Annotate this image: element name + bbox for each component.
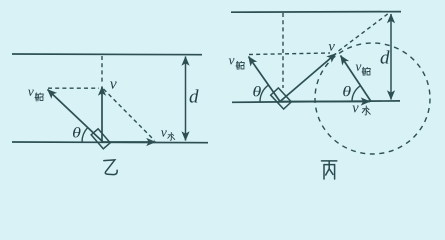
vector v (resultant, vertical) [101,87,103,143]
label v-boat right [356,65,362,71]
label 丙 [322,161,337,179]
label v-boat left [229,58,235,64]
dashed vertical from far bank to boat [282,13,284,88]
vector v resultant [280,54,336,102]
bottom bank line [12,141,208,144]
boat symbol [91,129,110,149]
angle theta arc left [260,85,269,101]
vector v-boat [48,90,104,143]
d dimension arrow [390,14,392,100]
label theta right [343,86,351,96]
label v-boat [28,90,34,96]
dashed circle radius v-boat [315,43,430,154]
label theta left [253,86,261,96]
vector v-boat left [249,57,281,102]
angle theta arc [82,128,88,142]
label d [381,50,390,63]
label v [110,81,117,88]
top bank line [231,11,401,14]
label v resultant [329,44,335,51]
vector v-boat right (to tangent point) [341,56,372,102]
angle theta arc right [352,86,360,102]
dashed horizontal v-tip link [48,87,99,89]
vector v-water [103,141,156,143]
dashed travel-path extension [339,13,390,51]
label v-water [352,106,358,113]
label d [190,89,199,102]
dashed diagonal v tip to v-water tip [104,89,155,141]
label 乙 [104,160,117,175]
top bank line [12,53,202,56]
d dimension arrow [185,57,187,141]
vector v-water [280,101,370,103]
dashed vertical from far bank to v tip [101,56,103,84]
label v-water [161,130,167,136]
dashed horizontal tip link [249,53,330,55]
label theta [73,127,81,137]
boat symbol [271,88,292,109]
bottom bank line [232,101,400,102]
